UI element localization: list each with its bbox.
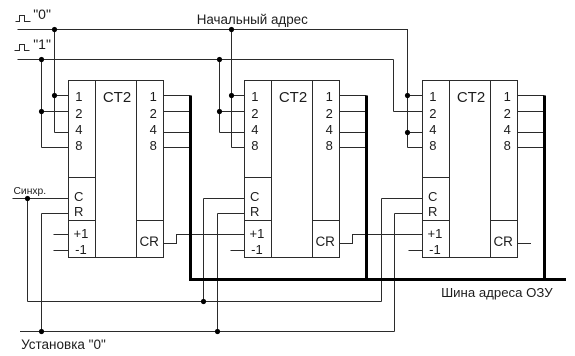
pin label DD3 +1 xyxy=(427,227,442,240)
junction: DD2 input 1 branch xyxy=(229,93,234,98)
pin label DD3 -1 xyxy=(429,243,441,256)
wire: reset riser to DD1 R xyxy=(41,214,43,332)
pin labels DD3 inputs 1,2,4,8 xyxy=(0,0,575,1)
pin stub: DD3 CR output xyxy=(518,243,532,245)
pin label DD2 C xyxy=(250,190,259,203)
wire: "0" drop to counter 3 (inputs 1,4,8) xyxy=(407,30,409,148)
pulse symbol for "1" input xyxy=(15,45,30,51)
counter DD3 (CT2) body xyxy=(423,81,518,258)
label CT2 of DD1 xyxy=(103,90,131,105)
wire: DD1 R input xyxy=(42,213,69,215)
wire: "1" drop to counter 3 (input 2) xyxy=(393,60,395,112)
wire: branch to DD2 input 2 xyxy=(220,111,245,113)
pin stub: DD2 -1 xyxy=(231,250,245,252)
wire: sync riser to DD2 C xyxy=(203,199,205,302)
pin stub: DD1 -1 xyxy=(54,250,69,252)
junction: DD3 input 4 branch xyxy=(405,130,410,135)
label "0" xyxy=(33,7,51,21)
junction: sync line xyxy=(25,196,30,201)
counter DD1 (CT2) body xyxy=(69,81,164,258)
wire: branch to DD3 input 4 xyxy=(408,132,423,134)
junction: "1" line / DD1 drop xyxy=(39,57,44,62)
wire: DD2 R input xyxy=(218,213,245,215)
pin label DD1 CR xyxy=(139,235,159,249)
wire: sync bottom rail xyxy=(28,301,382,303)
wire: DD2 outputs 1,2,4,8 to bus riser xyxy=(340,96,367,148)
pin label DD3 R xyxy=(428,205,437,218)
wire: DD3 outputs 1,2,4,8 to bus riser xyxy=(518,96,545,148)
wire: branch to DD1 input 1 xyxy=(55,95,69,97)
pin labels DD2 outputs 1,2,4,8 xyxy=(0,0,575,1)
pin labels DD3 outputs 1,2,4,8 xyxy=(0,0,575,1)
wire: sync drop xyxy=(27,199,29,302)
wire: branch to DD3 input 8 xyxy=(408,147,423,149)
junction: reset rail / DD1 riser xyxy=(39,329,44,334)
wire: DD2 CR to DD3 +1 xyxy=(340,235,423,244)
net label: Начальный адрес xyxy=(197,13,308,26)
wire: reset riser to DD2 R xyxy=(217,214,219,332)
wire: "0" drop to counter 2 (inputs 1,8) xyxy=(231,30,233,148)
pin labels DD1 inputs 1,2,4,8 xyxy=(0,0,575,1)
junction: "1" line / DD2 drop xyxy=(217,57,222,62)
wire: branch to DD3 input 2 xyxy=(394,111,423,113)
wire: "1" drop to counter 1 (inputs 2,8) xyxy=(41,60,43,148)
junction: DD1 input 2 branch xyxy=(39,109,44,114)
wire: "0" drop to counter 1 (inputs 1,4) xyxy=(54,30,56,133)
wire: DD1 CR to DD2 +1 xyxy=(164,235,245,244)
net label: Синхр. xyxy=(14,187,47,197)
junction: "0" line / DD2 drop xyxy=(229,27,234,32)
net label: Установка "0" xyxy=(21,338,106,352)
pin label DD3 C xyxy=(428,190,437,203)
pin label DD2 -1 xyxy=(251,243,263,256)
junction: DD1 input 1 branch xyxy=(52,93,57,98)
wire: reset riser to DD3 R xyxy=(394,214,396,332)
wire: branch to DD2 input 1 xyxy=(232,95,245,97)
wire: DD1 outputs 1,2,4,8 to bus riser xyxy=(164,96,191,148)
pulse symbol for "0" input xyxy=(16,16,31,22)
counter DD2 (CT2) body xyxy=(245,81,340,258)
pin labels DD2 inputs 1,2,4,8 xyxy=(0,0,575,1)
wire: DD3 C input xyxy=(382,198,423,200)
wire: sync input to DD1 C xyxy=(13,198,69,200)
pin stub: DD1 +1 xyxy=(54,234,69,236)
pin labels DD1 outputs 1,2,4,8 xyxy=(0,0,575,1)
pin label DD1 -1 xyxy=(75,243,87,256)
wire: branch to DD1 input 4 xyxy=(55,132,69,134)
pin label DD1 R xyxy=(74,205,83,218)
wire: branch to DD2 input 8 xyxy=(232,147,245,149)
junction: sync rail / DD2 riser xyxy=(201,299,206,304)
pin label DD3 CR xyxy=(493,235,513,249)
label CT2 of DD3 xyxy=(457,90,485,105)
label "1" xyxy=(33,37,51,51)
wire: branch to DD1 input 8 xyxy=(42,147,69,149)
wire: "1" drop to counter 2 (inputs 2,4) xyxy=(219,60,221,133)
pin stub: DD3 -1 xyxy=(409,250,423,252)
wire: "0" preset line xyxy=(18,29,409,31)
bus: DD3 output riser (thick) xyxy=(543,96,546,282)
pin label DD2 CR xyxy=(315,235,335,249)
pin label DD1 +1 xyxy=(73,227,88,240)
pin label DD1 C xyxy=(74,190,83,203)
wire: DD3 R input xyxy=(395,213,423,215)
wire: branch to DD1 input 2 xyxy=(42,111,69,113)
wire: sync riser to DD3 C xyxy=(381,199,383,302)
junction: reset rail / DD2 riser xyxy=(215,329,220,334)
net label: Шина адреса ОЗУ xyxy=(441,286,552,299)
label CT2 of DD2 xyxy=(279,90,307,105)
junction: DD3 input 1 branch xyxy=(405,93,410,98)
wire: branch to DD3 input 1 xyxy=(408,95,423,97)
pin label DD2 +1 xyxy=(249,227,264,240)
pin label DD2 R xyxy=(250,205,259,218)
wire: branch to DD2 input 4 xyxy=(220,132,245,134)
wire: DD2 C input xyxy=(204,198,245,200)
bus: DD1 output riser + RAM address bus (thick) xyxy=(191,96,567,280)
wire: "1" preset line xyxy=(18,59,394,61)
bus: DD2 output riser (thick) xyxy=(365,96,368,282)
junction: "0" line / DD1 drop xyxy=(52,27,57,32)
wire: reset bottom rail xyxy=(20,331,395,333)
junction: DD2 input 2 branch xyxy=(217,109,222,114)
